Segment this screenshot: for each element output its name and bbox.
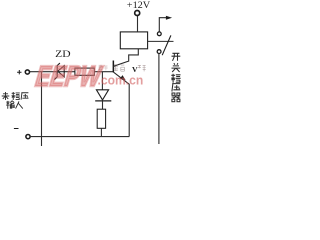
transistor V emitter lead <box>113 72 129 137</box>
node: + input terminal <box>25 70 29 74</box>
svg-text:+12V: +12V <box>127 1 151 11</box>
diode D cathode bar <box>95 100 111 102</box>
switch blade <box>162 35 171 55</box>
wire: +12V feed <box>137 16 139 32</box>
wire: diode to resistor <box>102 101 104 109</box>
watermark small char row <box>98 65 107 70</box>
wire: bottom - rail <box>31 136 130 138</box>
label + <box>17 70 21 74</box>
wire: left vertical rail going off bottom edge <box>41 72 43 146</box>
label 开关稳压器 (switching regulator) vertical <box>172 53 181 61</box>
label 输入 (input) <box>6 101 14 109</box>
wire: relay linkage to switch blade <box>148 40 174 42</box>
label 未稳压 (unregulated) <box>2 92 10 100</box>
transistor V collector lead + step to relay coil <box>113 49 138 67</box>
svg-text:.com.cn: .com.cn <box>98 73 144 88</box>
transistor V emitter arrow <box>120 75 126 80</box>
svg-text:EEPW: EEPW <box>32 60 106 92</box>
diode D triangle (pointing down) <box>96 90 108 100</box>
wire: output with arrow <box>159 18 166 32</box>
zener diode ZD cathode bar with hooks <box>54 63 60 80</box>
node: +12V terminal <box>135 11 140 16</box>
zener diode ZD triangle <box>58 66 64 77</box>
arrow head output <box>166 16 172 20</box>
wire: drop from base wire junction to diode <box>101 72 103 90</box>
svg-text:ZD: ZD <box>55 49 70 60</box>
node: - input terminal <box>26 135 30 139</box>
resistor (horizontal, series base) <box>75 68 94 75</box>
wire: unregulated + input horizontal wire <box>30 71 113 73</box>
wire: switch lower line going off bottom <box>158 54 160 144</box>
label - <box>14 128 19 130</box>
wire: resistor to bottom rail <box>100 128 102 136</box>
relay coil box <box>120 32 147 49</box>
switch upper contact <box>157 32 161 36</box>
switch lower contact <box>157 50 161 54</box>
resistor (vertical) <box>97 109 105 128</box>
transistor V base bar <box>112 61 114 73</box>
